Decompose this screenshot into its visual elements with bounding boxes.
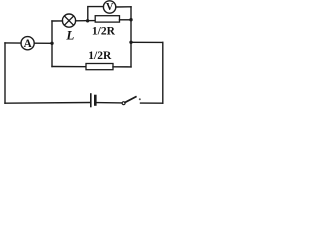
- wire right border: [162, 42, 164, 103]
- wire left border: [4, 43, 6, 103]
- wire battery tap row: [131, 41, 163, 43]
- wire left inner vertical: [51, 21, 53, 67]
- svg-text:A: A: [24, 38, 32, 50]
- wire middle branch right segment: [113, 66, 131, 68]
- resistor 1/2R (middle): [86, 64, 113, 70]
- node C junction dot (right vertical / battery tap): [129, 41, 132, 44]
- node B junction dot (resistor right / voltmeter): [129, 18, 132, 21]
- wire top branch left segment: [52, 20, 63, 22]
- resistor 1/2R (top): [95, 16, 119, 22]
- svg-text:L: L: [65, 27, 74, 42]
- lamp L: [62, 14, 75, 27]
- wire ammeter to left node: [34, 42, 52, 44]
- wire bottom left segment: [5, 102, 90, 105]
- ammeter A circle: [21, 37, 34, 50]
- wire ammeter row left: [5, 42, 21, 44]
- battery cell: [91, 94, 96, 107]
- wire right inner vertical: [130, 7, 132, 67]
- wire middle branch left segment: [52, 66, 86, 68]
- wire battery to switch: [97, 102, 122, 104]
- svg-text:V: V: [106, 2, 114, 13]
- wire top resistor right lead: [120, 19, 132, 21]
- node D junction dot (left node): [50, 42, 53, 45]
- voltmeter U=V circle: [103, 1, 115, 13]
- wire switch to right border: [141, 102, 163, 104]
- node A junction dot (lamp/voltmeter tap): [86, 19, 89, 22]
- switch S lever: [125, 97, 136, 103]
- wire voltmeter right tap: [116, 6, 131, 8]
- switch S pivot: [122, 102, 125, 105]
- switch S contact: [139, 98, 141, 100]
- wire lamp to voltmeter tap node: [76, 20, 96, 22]
- wire voltmeter left tap vertical: [88, 7, 104, 21]
- svg-text:1/2R: 1/2R: [88, 50, 112, 62]
- svg-text:1/2R: 1/2R: [92, 26, 116, 38]
